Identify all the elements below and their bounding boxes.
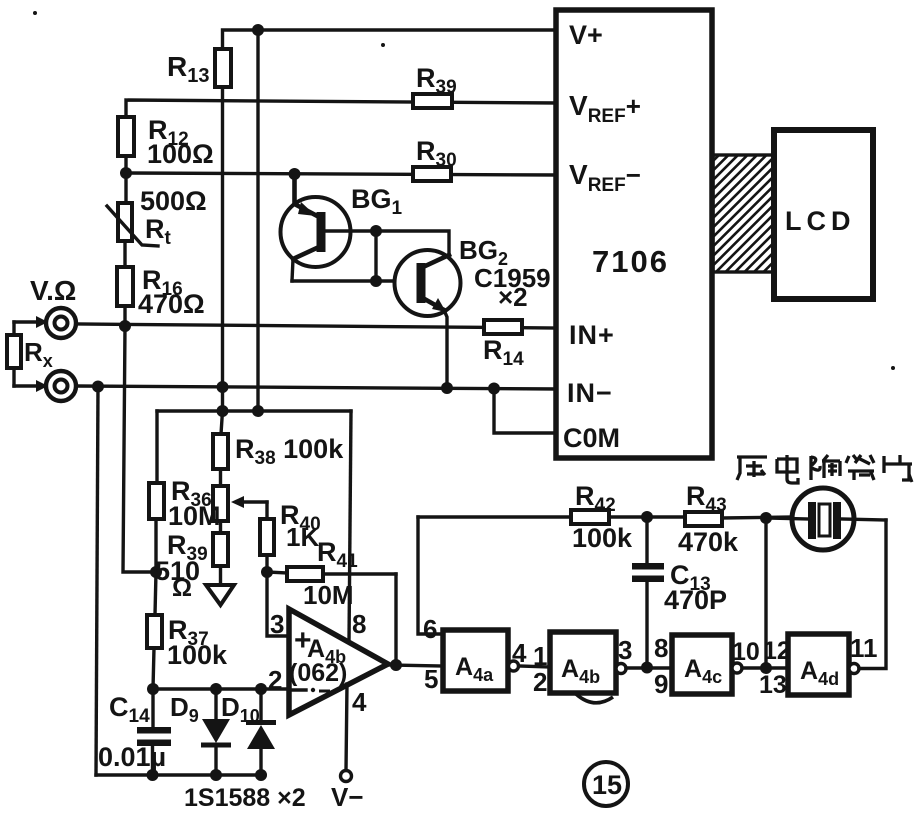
svg-text:10M: 10M xyxy=(168,501,221,531)
label pin 12 xyxy=(763,637,791,665)
jack terminal 2 xyxy=(46,371,76,401)
wire op-amp pin 2 rail xyxy=(153,687,289,690)
label LCD xyxy=(785,206,856,236)
svg-text:10M: 10M xyxy=(303,580,354,610)
svg-text:100Ω: 100Ω xyxy=(147,139,214,169)
svg-text:1S1588 ×2: 1S1588 ×2 xyxy=(184,784,306,812)
node op-amp output xyxy=(390,659,402,671)
label Rt xyxy=(145,214,172,249)
op-amp U A4b xyxy=(289,609,388,715)
resistor R37 xyxy=(147,572,162,689)
svg-text:V+: V+ xyxy=(569,20,603,50)
label R39 top xyxy=(416,63,457,98)
wire pin6 drop xyxy=(418,517,443,634)
wire feedback drop to output xyxy=(394,574,397,665)
svg-text:9: 9 xyxy=(654,669,668,699)
svg-text:8: 8 xyxy=(654,633,668,663)
node base link bottom xyxy=(370,275,382,287)
node supply drop / sub-circuit rail xyxy=(252,405,264,417)
wire A4c to A4d xyxy=(742,666,788,669)
label pin 1 xyxy=(533,641,547,671)
label pin VREF+ xyxy=(569,90,641,127)
label pin 8 xyxy=(352,609,366,639)
wire A4b to A4c xyxy=(626,666,672,669)
label C14 xyxy=(109,692,150,727)
wire emitter-base rail to BG2 xyxy=(292,279,419,282)
node R12 bottom tee xyxy=(120,167,132,179)
label pin 2 xyxy=(268,665,282,695)
svg-text:V.Ω: V.Ω xyxy=(30,275,76,306)
wire op-amp pin 8 supply xyxy=(349,411,351,642)
svg-text:13: 13 xyxy=(759,671,787,699)
resistor R36 (left edge) xyxy=(149,411,164,572)
label A4b opamp xyxy=(307,635,346,667)
label 1S1588x2 xyxy=(184,784,306,812)
label pin 10 xyxy=(732,638,760,666)
label 1K xyxy=(286,522,319,552)
svg-text:2: 2 xyxy=(533,667,547,697)
label char 3 xyxy=(811,455,840,480)
label 470k xyxy=(678,527,739,557)
label pin IN- xyxy=(567,378,613,408)
label R16 xyxy=(142,265,183,300)
svg-text:1K: 1K xyxy=(286,522,319,552)
node divider tap xyxy=(150,566,162,578)
label 470P xyxy=(664,585,727,615)
svg-text:4: 4 xyxy=(352,687,367,717)
label C1959 xyxy=(474,263,551,293)
label + input xyxy=(294,624,312,657)
label R42 xyxy=(575,481,616,516)
svg-text:100k: 100k xyxy=(572,523,633,553)
wire V+ supply drop to sub-circuit rail xyxy=(256,30,259,411)
wire sub-circuit top rail xyxy=(157,409,351,412)
thermistor Rt xyxy=(107,203,158,246)
gate A4b xyxy=(550,632,626,693)
figure number badge 15 xyxy=(584,762,628,806)
transistor BG2 xyxy=(395,250,461,316)
node D9 bottom xyxy=(210,769,222,781)
wire VREF- rail xyxy=(126,173,558,175)
label R40 xyxy=(280,500,321,535)
speck 3 xyxy=(891,366,895,370)
speck 2 xyxy=(381,43,385,47)
svg-text:LCD: LCD xyxy=(785,206,856,236)
label ohm (510) xyxy=(172,574,192,602)
node R37 / pin2 rail / C14 xyxy=(147,683,159,695)
jack V.Ω terminal 1 xyxy=(46,308,76,338)
label Rt value 500ohm xyxy=(140,186,207,216)
node R13 column / IN- rail xyxy=(217,381,229,393)
svg-text:3: 3 xyxy=(270,609,284,639)
label char 2 xyxy=(777,455,798,483)
wire probe arrow bottom xyxy=(14,380,48,392)
label pin 4 xyxy=(352,687,367,717)
node base link top xyxy=(370,225,382,237)
svg-text:C0M: C0M xyxy=(563,423,620,453)
label BG2 xyxy=(459,235,508,269)
resistor R43 xyxy=(685,512,793,526)
label pin 6 xyxy=(423,614,437,644)
resistor R16 xyxy=(117,267,133,306)
label 0.01u xyxy=(98,742,166,772)
node piezo drop on gate wire xyxy=(760,662,772,674)
svg-text:3: 3 xyxy=(618,635,632,665)
wire A4a to A4b xyxy=(519,666,550,667)
label pin 13 xyxy=(759,671,787,699)
label trailing mark xyxy=(909,474,912,482)
wire V+ top rail xyxy=(223,30,559,49)
stray mark under A4b xyxy=(576,694,613,703)
speck 1 xyxy=(33,11,37,15)
wire oscillator top rail xyxy=(418,515,571,518)
diode D10 xyxy=(246,689,276,775)
node D10 top xyxy=(255,683,267,695)
capacitor C14 xyxy=(137,689,171,775)
label pin 2 gate xyxy=(533,667,547,697)
label A4d xyxy=(800,657,839,689)
wire COM branch xyxy=(494,389,556,434)
label A4b gate xyxy=(561,655,600,687)
display LCD box xyxy=(774,130,873,299)
label pin 3 xyxy=(270,609,284,639)
label pin 5 xyxy=(424,664,438,694)
svg-text:5: 5 xyxy=(424,664,438,694)
resistor R14 xyxy=(484,320,522,334)
node V+ rail junction xyxy=(252,24,264,36)
node R16 / IN+ rail xyxy=(119,320,131,332)
label pin 9 xyxy=(654,669,668,699)
label R14 xyxy=(483,335,524,370)
label - input dashes xyxy=(293,688,330,692)
resistor Rx xyxy=(7,322,21,386)
label char 4 xyxy=(846,455,874,480)
label C13 xyxy=(670,560,711,595)
svg-text:Ω: Ω xyxy=(172,574,192,602)
wire left column R12 to Rt xyxy=(124,156,127,203)
resistor R42 xyxy=(571,510,685,524)
svg-text:R38 100k: R38 100k xyxy=(235,434,344,469)
label pin V+ xyxy=(569,20,603,50)
wire op-amp pin 4 to V- xyxy=(346,684,347,770)
label D10 xyxy=(221,692,260,726)
node D9 top xyxy=(210,683,222,695)
label pin 11 xyxy=(850,633,878,663)
label R30 xyxy=(416,136,457,171)
label R12 xyxy=(148,115,189,150)
node BG2 emitter on IN- xyxy=(441,382,453,394)
label R38 100k xyxy=(235,434,344,469)
wire bottom ground rail xyxy=(96,773,265,776)
label pin 3 gate xyxy=(618,635,632,665)
node COM branch on IN- xyxy=(488,383,500,395)
potentiometer body (R36 tap) xyxy=(213,486,228,533)
gate A4a xyxy=(443,630,519,691)
label 100k (R42) xyxy=(572,523,633,553)
resistor R39 (510 ohm) xyxy=(213,533,228,585)
label char 5 xyxy=(884,455,912,480)
label V- xyxy=(331,782,364,812)
label x2 xyxy=(498,282,528,312)
svg-text:(062): (062) xyxy=(289,659,347,687)
terminal V- xyxy=(341,771,352,782)
node C14 bottom xyxy=(147,769,159,781)
svg-text:IN+: IN+ xyxy=(569,320,615,350)
svg-text:4: 4 xyxy=(512,638,527,668)
label piezo ceramic (Chinese) char 1 xyxy=(737,457,767,480)
wire IN+ rail xyxy=(77,324,559,328)
label R13 xyxy=(167,51,209,87)
node feedback tee xyxy=(261,566,273,578)
wire VREF+ rail xyxy=(126,100,558,117)
svg-text:V−: V− xyxy=(331,782,364,812)
svg-text:15: 15 xyxy=(592,770,622,800)
label pin 4 gate xyxy=(512,638,527,668)
label R36 xyxy=(171,476,212,511)
label Rx xyxy=(24,337,53,371)
label pin 8 gate xyxy=(654,633,668,663)
resistor R41 xyxy=(267,567,396,581)
wire left column down to divider box xyxy=(123,326,156,572)
svg-text:11: 11 xyxy=(850,633,878,663)
label pin COM xyxy=(563,423,620,453)
label 10M (R36) xyxy=(168,501,221,531)
connector hatched ribbon xyxy=(713,155,773,272)
label R37 xyxy=(168,615,209,650)
node BG1 collector on VREF- rail xyxy=(289,168,301,180)
label 100k (R37) xyxy=(167,640,228,670)
wire IN- rail xyxy=(77,386,559,389)
svg-text:470P: 470P xyxy=(664,585,727,615)
IC U1 7106 xyxy=(556,10,712,458)
svg-text:8: 8 xyxy=(352,609,366,639)
wire A4d output up to piezo xyxy=(859,520,886,669)
capacitor C13 xyxy=(632,517,664,667)
wire probe arrow top xyxy=(14,316,48,328)
resistor R13 xyxy=(215,49,231,411)
label A4c xyxy=(684,655,722,687)
svg-text:6: 6 xyxy=(423,614,437,644)
diode D9 xyxy=(201,689,231,775)
svg-text:×2: ×2 xyxy=(498,282,528,312)
piezo buzzer xyxy=(766,488,886,550)
wiper arrow xyxy=(231,496,267,508)
svg-text:7106: 7106 xyxy=(592,244,669,279)
label 10M (R41) xyxy=(303,580,354,610)
label pin VREF- xyxy=(569,159,641,196)
node D10 bottom xyxy=(255,769,267,781)
wire left column Rt to R16 xyxy=(123,241,126,267)
label R43 xyxy=(686,481,727,516)
svg-text:IN−: IN− xyxy=(567,378,613,408)
resistor R40 xyxy=(260,502,274,572)
svg-text:470k: 470k xyxy=(678,527,739,557)
label A4a xyxy=(455,653,494,685)
label V.ohm jack xyxy=(30,275,76,306)
wire BG2 emitter to IN- xyxy=(444,310,447,388)
wire pin12 drop xyxy=(764,518,767,668)
wire far-left drop to bottom rail xyxy=(96,387,98,776)
resistor R39 (top) xyxy=(413,94,452,108)
node piezo branch xyxy=(760,512,772,524)
resistor R30 xyxy=(413,167,451,181)
wire left column R16 to IN+ rail xyxy=(123,306,126,326)
ground xyxy=(206,585,234,605)
label R41 xyxy=(317,537,358,572)
label R39b xyxy=(167,530,208,565)
svg-text:470Ω: 470Ω xyxy=(138,289,205,319)
resistor R38 xyxy=(213,411,228,486)
resistor R12 xyxy=(118,117,134,156)
wire op-amp output to A4a pin5 xyxy=(388,665,443,666)
wire op-amp pin 3 xyxy=(267,572,289,636)
wire base-emitter link xyxy=(374,231,377,281)
label R16 value 470ohm xyxy=(138,289,205,319)
svg-text:500Ω: 500Ω xyxy=(140,186,207,216)
svg-text:10: 10 xyxy=(732,638,760,666)
node C13 drop on gate wire xyxy=(641,662,653,674)
label R12 value 100ohm xyxy=(147,139,214,169)
gate A4c xyxy=(672,635,742,694)
label 7106 xyxy=(592,244,669,279)
transistor BG1 xyxy=(281,174,351,267)
node R13 column / sub-circuit rail xyxy=(217,405,229,417)
svg-text:0.01µ: 0.01µ xyxy=(98,742,166,772)
label 510 xyxy=(155,556,200,586)
svg-text:2: 2 xyxy=(268,665,282,695)
svg-text:100k: 100k xyxy=(167,640,228,670)
label pin IN+ xyxy=(569,320,615,350)
node C13 top xyxy=(641,511,653,523)
label BG1 xyxy=(351,184,403,219)
wire BG1 emitter drop xyxy=(292,259,293,281)
wire BG1 base line xyxy=(325,231,449,255)
label D9 xyxy=(170,692,199,726)
gate A4d xyxy=(788,634,859,695)
label (062) xyxy=(289,659,347,687)
node jack2 / left drop xyxy=(92,381,104,393)
